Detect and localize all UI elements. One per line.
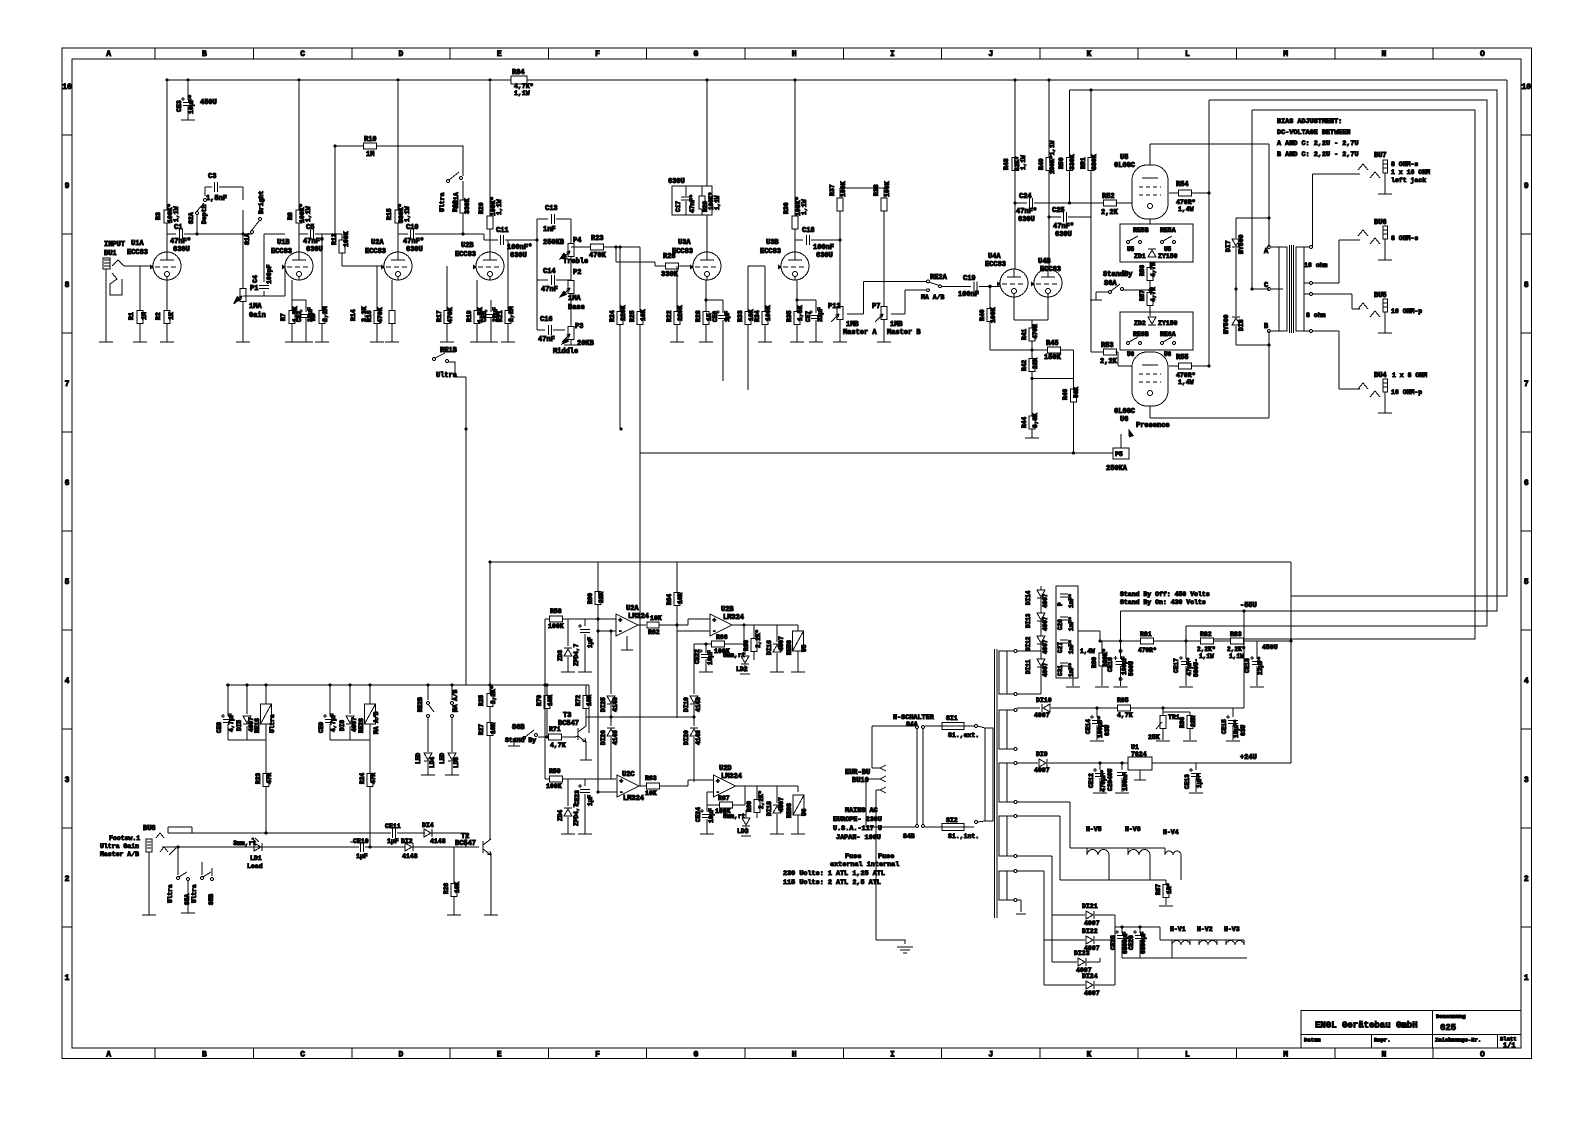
svg-text:R42: R42 (1021, 360, 1028, 371)
svg-text:EUROPE- 230U: EUROPE- 230U (833, 816, 882, 824)
svg-text:G: G (693, 50, 698, 59)
resistor R41 470R (1021, 324, 1039, 350)
svg-text:CE17: CE17 (1173, 658, 1180, 673)
svg-text:4007: 4007 (1042, 593, 1049, 608)
svg-text:Stand By Off: 450 Volts: Stand By Off: 450 Volts (1120, 591, 1210, 598)
svg-text:U5: U5 (1164, 246, 1172, 253)
svg-text:Bright: Bright (258, 190, 265, 214)
resistor R34 100K (748, 266, 772, 342)
svg-text:U1B: U1B (277, 239, 290, 247)
relay RE6S U6 (786, 786, 808, 834)
resistor R86 22K (1163, 712, 1197, 740)
resistor R24 220K (609, 247, 627, 429)
svg-text:10K: 10K (645, 790, 657, 797)
svg-text:1,1W: 1,1W (514, 90, 530, 97)
resistor R7 1.5K (280, 280, 299, 342)
svg-text:4007: 4007 (1084, 920, 1100, 927)
svg-text:1,4W: 1,4W (1178, 206, 1194, 213)
svg-text:U2A: U2A (626, 605, 639, 613)
diode DI7 BY509 (1225, 216, 1271, 289)
svg-text:470R*: 470R* (1176, 372, 1196, 379)
svg-text:U5: U5 (1120, 154, 1128, 162)
svg-text:1µF: 1µF (587, 795, 594, 806)
svg-text:C31: C31 (1057, 665, 1064, 676)
svg-text:Treble: Treble (563, 258, 588, 266)
ground T2 (484, 914, 498, 916)
mains transformer core (995, 649, 998, 918)
diode DI10 4007 bias (1017, 697, 1117, 719)
svg-text:C25: C25 (1052, 207, 1065, 215)
ground LD3 (741, 835, 751, 837)
svg-text:R87: R87 (1155, 884, 1162, 895)
svg-text:22K: 22K (1190, 716, 1197, 727)
svg-text:R8: R8 (287, 212, 294, 220)
svg-text:625: 625 (1440, 1023, 1456, 1033)
rectifier stack box (1056, 586, 1078, 678)
svg-text:CE23: CE23 (574, 790, 581, 805)
resistor R22 220K (666, 266, 684, 342)
wire wrap rail W2 -55V (1070, 90, 1498, 611)
wire footswitch lower y=847 (162, 846, 479, 848)
svg-text:150K: 150K (1044, 354, 1062, 362)
svg-text:RE2A: RE2A (930, 274, 948, 282)
ground R21 (501, 341, 515, 343)
zener ZD3 ZPD4.7 (557, 619, 580, 672)
svg-text:CE16: CE16 (1107, 657, 1114, 672)
capacitor CE10 1uF (350, 838, 369, 860)
switch RE2A MA A/B (921, 274, 948, 301)
svg-text:A: A (106, 50, 111, 59)
svg-text:RE5B: RE5B (1133, 227, 1149, 234)
svg-text:2,2M: 2,2M (322, 306, 329, 322)
op-amp U2A LM324 (596, 605, 649, 650)
svg-text:47nF: 47nF (541, 286, 558, 294)
svg-text:100nF: 100nF (813, 244, 834, 252)
heater H-V1 (1160, 926, 1190, 945)
label MAINS AC (833, 807, 882, 842)
svg-text:Lead: Lead (247, 863, 263, 870)
svg-text:Ultra: Ultra (167, 884, 174, 903)
switch RE2B (417, 685, 434, 717)
svg-text:R55: R55 (1176, 354, 1189, 362)
switch S6B Stand By (505, 724, 548, 746)
wire cathode rail (990, 348, 1073, 351)
svg-text:D: D (399, 50, 404, 59)
svg-text:RE6S: RE6S (786, 803, 793, 818)
svg-text:A: A (106, 1051, 111, 1060)
resistor R60 22K (587, 562, 605, 792)
svg-text:R45: R45 (1046, 340, 1059, 348)
svg-text:R67: R67 (718, 795, 730, 802)
svg-text:B: B (202, 50, 207, 59)
svg-text:Ultra Gain: Ultra Gain (100, 843, 139, 850)
relay box RE6 U6 (1120, 312, 1193, 350)
svg-text:20KB: 20KB (577, 340, 595, 348)
ground C29 (1115, 792, 1129, 794)
svg-text:2,2M: 2,2M (508, 306, 515, 322)
svg-text:LM324: LM324 (623, 795, 644, 803)
ground R22 (670, 341, 684, 343)
svg-text:LED: LED (415, 753, 422, 764)
resistor R33 10K (737, 266, 755, 390)
svg-text:47nF: 47nF (538, 336, 555, 344)
svg-text:H-V4: H-V4 (1163, 829, 1179, 836)
svg-text:U2B: U2B (461, 242, 474, 250)
svg-text:500U-: 500U- (1193, 658, 1200, 677)
svg-text:T3: T3 (563, 712, 571, 720)
svg-text:10µF*: 10µF* (1233, 719, 1240, 738)
svg-text:DI20: DI20 (683, 730, 690, 745)
svg-text:C5: C5 (306, 224, 314, 232)
svg-text:RE1B: RE1B (440, 347, 458, 355)
regulator U1 7824 (1128, 744, 1291, 780)
svg-text:H-V3: H-V3 (1224, 926, 1240, 933)
svg-text:100nF*: 100nF* (507, 244, 532, 252)
svg-text:R16: R16 (366, 310, 373, 322)
svg-text:R41: R41 (1021, 329, 1028, 340)
svg-text:M: M (1283, 50, 1288, 59)
svg-text:4007: 4007 (1042, 639, 1049, 654)
svg-text:10K: 10K (650, 615, 662, 622)
wire to V3A grid (616, 247, 666, 266)
diode DI4 4148 (422, 822, 446, 845)
svg-text:100nF: 100nF (958, 291, 979, 299)
resistor R24r 47R (359, 740, 377, 847)
resistor R84 (511, 69, 534, 97)
svg-text:ECC83: ECC83 (365, 248, 386, 256)
svg-text:R38: R38 (873, 184, 880, 196)
svg-text:R36: R36 (783, 202, 790, 214)
svg-text:DI24: DI24 (1082, 973, 1098, 980)
wire LV taps to rectifiers (1017, 856, 1052, 985)
resistor R81 470R (1138, 631, 1157, 654)
svg-text:ZPD4,7: ZPD4,7 (573, 803, 580, 826)
svg-text:100µF: 100µF (1121, 656, 1128, 675)
svg-text:ZY150: ZY150 (1158, 253, 1178, 260)
svg-text:630U: 630U (816, 252, 833, 260)
svg-text:R23: R23 (591, 235, 604, 243)
svg-text:10K: 10K (640, 309, 647, 321)
svg-text:S5B: S5B (208, 894, 215, 905)
svg-text:ECC83: ECC83 (760, 248, 781, 256)
svg-text:Master A/B: Master A/B (100, 851, 139, 858)
svg-text:4,7K: 4,7K (1117, 712, 1133, 719)
resistor R16 470K (366, 266, 384, 342)
svg-text:DI4: DI4 (422, 822, 434, 829)
label fuse table (783, 853, 899, 887)
wire V3A plate to bus (706, 80, 708, 252)
capacitor C24 47nF (1015, 193, 1105, 224)
svg-text:P2: P2 (573, 269, 581, 277)
svg-text:DI26: DI26 (600, 730, 607, 745)
svg-text:left jack: left jack (1391, 177, 1426, 184)
label -55V (1240, 602, 1257, 610)
switch S1A Bright (241, 190, 265, 245)
svg-text:LD5: LD5 (453, 757, 460, 768)
svg-text:8 ohm: 8 ohm (1306, 312, 1326, 319)
svg-text:100K: 100K (990, 307, 997, 323)
svg-text:1MA: 1MA (249, 303, 262, 311)
svg-text:R24: R24 (359, 773, 366, 784)
wire R51 column to R53 (1090, 217, 1092, 352)
svg-text:Fuse: Fuse (878, 853, 894, 861)
svg-text:47nF*: 47nF* (170, 238, 191, 246)
svg-text:8 OHM-s: 8 OHM-s (1391, 161, 1418, 168)
resistor R87 1R (1155, 880, 1173, 905)
capacitor C29 100nF (1117, 763, 1129, 792)
resistor R35 1.5K (786, 280, 804, 342)
svg-text:O: O (1480, 1051, 1485, 1060)
connector BU8 footswitch jack (100, 825, 176, 915)
ground ZD3 (561, 671, 575, 673)
svg-text:DI16: DI16 (766, 640, 773, 655)
resistor R51 330K (1080, 90, 1098, 217)
resistor R69 2.2K (746, 786, 765, 818)
svg-text:R27: R27 (478, 724, 485, 735)
svg-text:DI6: DI6 (339, 720, 346, 731)
diode DI6 4007 (339, 685, 358, 740)
svg-text:+: + (716, 778, 720, 785)
earth ground mains (876, 790, 913, 953)
resistor R54 470R screen (1169, 181, 1209, 213)
input jack BU1 (103, 241, 153, 342)
ground CE24 (700, 833, 714, 835)
svg-text:LD3: LD3 (737, 828, 749, 835)
svg-text:C13: C13 (545, 205, 558, 213)
svg-text:R15: R15 (386, 208, 393, 220)
ground CE3 (181, 119, 195, 121)
wire footswitch upper y=833 (168, 827, 466, 847)
relay box RE5 U5 (1120, 224, 1193, 262)
resistor R42 22K (1021, 350, 1039, 379)
svg-text:R14: R14 (350, 309, 357, 321)
svg-text:U3B: U3B (766, 239, 779, 247)
ground DI16 (770, 671, 784, 673)
ground CE16 (1114, 686, 1128, 688)
ground ZD4 (561, 833, 575, 835)
capacitor CE17 47uF 500V (1173, 626, 1200, 686)
svg-text:R52: R52 (1102, 193, 1115, 201)
svg-text:R33: R33 (737, 310, 744, 322)
svg-text:U.S.A.-117 U: U.S.A.-117 U (833, 825, 882, 833)
svg-text:630U: 630U (1055, 231, 1072, 239)
svg-text:MA A/B: MA A/B (452, 689, 459, 712)
svg-text:4,7R: 4,7R (1150, 262, 1157, 277)
wire V4 cathodes (1014, 297, 1048, 328)
svg-text:DI21: DI21 (1082, 903, 1098, 910)
svg-text:RE2B: RE2B (417, 697, 424, 712)
svg-text:R86: R86 (1179, 717, 1186, 728)
resistor R64 10K (666, 562, 684, 718)
wire HV taps to stack (1017, 586, 1041, 694)
svg-text:Repr.: Repr. (1374, 1037, 1391, 1044)
wire C18 to R37 (838, 238, 841, 241)
op-amp U2B LM324 (677, 606, 798, 636)
capacitor CE16 100uF 500V (1107, 611, 1135, 686)
diode DI14 4007 + cap P 1nF (1025, 590, 1075, 608)
svg-text:CE6: CE6 (712, 311, 719, 322)
resistor R58 100K (543, 608, 616, 779)
svg-text:1,1W: 1,1W (1020, 155, 1027, 170)
svg-text:D: D (399, 1051, 404, 1060)
svg-text:R35: R35 (786, 310, 793, 322)
svg-text:K: K (1087, 50, 1092, 59)
svg-text:U1: U1 (1131, 744, 1139, 751)
heater H-V5 (1086, 826, 1109, 880)
wire LV dc bus (1115, 925, 1247, 958)
ground R80 (1095, 686, 1109, 688)
row numbers left/right (62, 83, 1532, 983)
ground BU8 (142, 914, 156, 916)
svg-text:C2940U: C2940U (1107, 768, 1114, 791)
svg-text:U2C: U2C (622, 771, 635, 779)
svg-text:22K: 22K (1032, 358, 1039, 369)
wire wrap rail W3 screens (1186, 100, 1487, 626)
capacitor C11 100nF (490, 227, 532, 260)
svg-text:C: C (300, 50, 305, 59)
svg-text:CE12: CE12 (1088, 773, 1095, 788)
wire heater taps (1017, 802, 1166, 880)
wire screen rail x=1209 (1208, 100, 1210, 366)
resistor R25 10K (629, 309, 647, 324)
capacitor CE11 1uF (385, 823, 401, 845)
resistor R53 2.2K (1091, 342, 1132, 366)
svg-text:CE3: CE3 (176, 100, 183, 112)
svg-text:R37: R37 (829, 184, 836, 196)
ground R19 (470, 341, 484, 343)
resistor R40 100K (979, 286, 997, 350)
svg-text:10K: 10K (677, 593, 684, 604)
svg-text:63U: 63U (1104, 725, 1111, 736)
diode DI16 4007 (766, 625, 785, 672)
svg-text:1MB: 1MB (846, 321, 859, 329)
svg-text:+: + (713, 617, 717, 624)
svg-text:DI12: DI12 (1025, 636, 1032, 651)
svg-text:L: L (1185, 50, 1190, 59)
svg-text:1 x 16 OHM: 1 x 16 OHM (1391, 169, 1430, 176)
svg-text:R23: R23 (255, 773, 262, 784)
ground CE22 (699, 671, 713, 673)
resistor R25m 2.2K (478, 685, 497, 706)
svg-text:EUR-BU: EUR-BU (845, 769, 870, 777)
svg-text:R1: R1 (128, 312, 135, 320)
wire master A to RE2A (847, 281, 927, 314)
svg-text:I: I (890, 1051, 895, 1060)
svg-text:470K: 470K (447, 307, 454, 323)
diode DI13 4007 + cap C26 (1025, 598, 1075, 631)
ground transformer tap (1016, 900, 1026, 914)
resistor R14 3.3K (350, 280, 395, 342)
ground CE18 (1250, 686, 1264, 688)
svg-text:2,2K: 2,2K (1101, 209, 1119, 217)
svg-text:LM324: LM324 (723, 614, 744, 622)
switch RE1B Ultra (433, 347, 466, 380)
svg-text:CE7: CE7 (805, 311, 812, 322)
svg-text:H-V5: H-V5 (1086, 826, 1102, 833)
svg-text:R10: R10 (364, 136, 377, 144)
tube U1B ECC83 (271, 239, 313, 280)
svg-text:470µF*: 470µF* (1100, 769, 1107, 792)
svg-text:RE5S: RE5S (786, 640, 793, 655)
svg-text:DI19: DI19 (683, 697, 690, 712)
ground R26f (447, 914, 461, 916)
svg-text:1 x 8 OHM: 1 x 8 OHM (1392, 372, 1427, 379)
svg-text:10µF*: 10µF* (188, 94, 195, 114)
svg-text:-55U: -55U (1240, 602, 1257, 610)
wire column x=490 (T2 collector) (489, 562, 491, 840)
capacitor C1 47nF (167, 224, 252, 254)
svg-text:P12: P12 (828, 303, 841, 311)
output transformer secondary (1296, 246, 1312, 333)
potentiometer P4 250KB Treble (543, 237, 588, 268)
svg-text:H-V6: H-V6 (1125, 826, 1141, 833)
svg-text:4007: 4007 (778, 797, 785, 812)
label N-SCHALTER (893, 714, 935, 722)
svg-text:LD2: LD2 (736, 666, 748, 673)
wire W4 to center tap (1250, 110, 1253, 291)
wire wrap rail W1 450V (1291, 80, 1507, 641)
wire master B to RE2A (891, 290, 927, 314)
svg-text:R84: R84 (512, 69, 525, 77)
svg-text:U2A: U2A (371, 239, 384, 247)
svg-text:U6: U6 (801, 808, 808, 816)
svg-text:4,7µF: 4,7µF (228, 713, 235, 732)
svg-text:C24: C24 (1019, 193, 1032, 201)
LED LD2 5mm (723, 648, 749, 672)
resistor R48 82K (1003, 80, 1027, 269)
label LD2 (736, 666, 750, 674)
label Presence + pot P5 (1106, 422, 1170, 473)
resistor R67 100K (707, 786, 745, 815)
ground R87 (1159, 905, 1173, 907)
svg-text:RE5A: RE5A (1160, 227, 1176, 234)
svg-text:DI18: DI18 (766, 801, 773, 816)
svg-text:470R: 470R (1032, 324, 1039, 339)
svg-text:2,2K*: 2,2K* (490, 685, 497, 704)
svg-text:ZD4: ZD4 (557, 810, 564, 821)
capacitor CE26 6800uF (1128, 927, 1147, 958)
svg-text:C27: C27 (1057, 642, 1064, 653)
svg-text:R62: R62 (648, 629, 660, 636)
svg-text:Fuse: Fuse (845, 853, 861, 861)
svg-text:47R: 47R (266, 773, 273, 784)
ground R44 (1025, 437, 1039, 439)
ground LD5 (445, 774, 459, 776)
svg-text:ECC83: ECC83 (271, 248, 292, 256)
wire presence net (1105, 452, 1113, 454)
svg-text:BU7: BU7 (1374, 152, 1387, 160)
resistor R28 1K cathode (695, 280, 713, 342)
svg-text:R48: R48 (1003, 158, 1010, 170)
svg-text:R44: R44 (1021, 417, 1028, 428)
svg-text:R19: R19 (466, 310, 473, 322)
svg-text:DI14: DI14 (1025, 590, 1032, 605)
title block (1301, 1011, 1521, 1051)
heater H-V2 (1190, 926, 1217, 945)
svg-text:ZPD4,7: ZPD4,7 (573, 643, 580, 666)
resistor R15 330K (386, 82, 411, 252)
svg-text:P3: P3 (575, 323, 583, 331)
mains transformer secondary windings (999, 650, 1017, 902)
resistor R59 100K (545, 768, 616, 790)
svg-text:Ultra: Ultra (269, 714, 276, 733)
svg-text:100pF: 100pF (266, 264, 273, 284)
svg-text:2,2K: 2,2K (1100, 358, 1118, 366)
heater H-V4 (1128, 829, 1181, 880)
wire column x=466 (465, 429, 467, 685)
jack BU4 (1358, 372, 1427, 413)
LED LD1 Lead 3mm (233, 838, 263, 870)
